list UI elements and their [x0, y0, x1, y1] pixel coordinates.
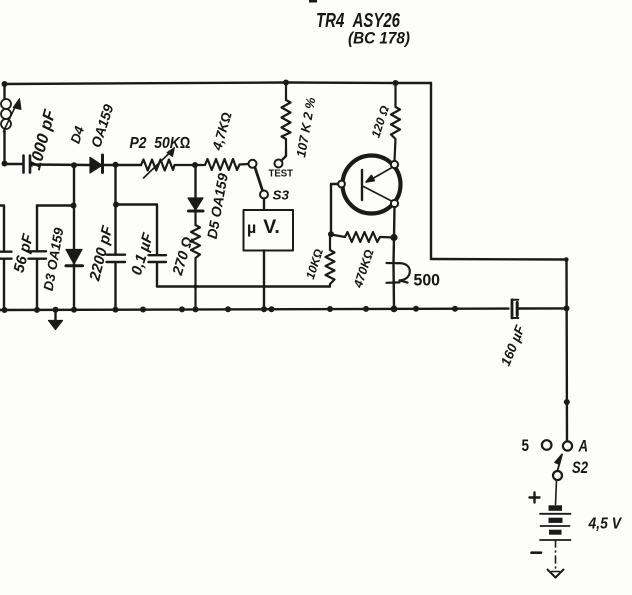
- switch S2 contact A: [563, 441, 572, 450]
- capacitor input (cut at left edge): [0, 206, 12, 311]
- svg-text:2200 pF: 2200 pF: [86, 223, 116, 283]
- svg-text:107 K 2 %: 107 K 2 %: [293, 96, 318, 159]
- node before D4 (D3 tap): [71, 162, 77, 168]
- resistor 107K 2%: [282, 83, 291, 151]
- test jack contact (4.7K end): [249, 160, 257, 168]
- resistor 10K: [326, 234, 335, 286]
- node P2 / 4.7K / D5 junction: [192, 162, 198, 168]
- wire S3 to meter: [263, 199, 265, 211]
- diode D4 OA159: [90, 155, 141, 173]
- svg-text:56 pF: 56 pF: [10, 231, 37, 274]
- svg-text:4,7KΩ: 4,7KΩ: [209, 110, 234, 152]
- node 270/wire crossing: [194, 285, 198, 289]
- diode D3 OA159: [66, 250, 83, 266]
- switch S3 arm: [255, 168, 263, 191]
- capacitor 0.1 uF: [149, 255, 167, 286]
- node corner battery feed: [564, 257, 569, 262]
- node 2200pF top tee: [113, 202, 119, 208]
- svg-text:120 Ω: 120 Ω: [369, 103, 393, 139]
- node input top: [2, 81, 8, 87]
- capacitor 2200 pF: [107, 255, 126, 309]
- battery minus sign: [532, 551, 542, 554]
- svg-text:µV.: µV.: [247, 216, 280, 238]
- node bus/battery branch: [564, 305, 570, 311]
- svg-text:0,1 µF: 0,1 µF: [128, 230, 157, 277]
- node after D4: [113, 162, 119, 168]
- svg-text:160 µF: 160 µF: [498, 323, 528, 369]
- wire meter to bus: [263, 251, 265, 310]
- switch S2 pole contact: [553, 471, 562, 480]
- wire bottom bus left of 160uF: [0, 309, 509, 310]
- wire bottom bus right of 160uF: [519, 307, 567, 310]
- svg-text:5: 5: [522, 436, 530, 455]
- svg-text:S3: S3: [273, 189, 290, 203]
- node collector/470K: [390, 234, 397, 241]
- capacitor 1000 pF (series): [5, 156, 91, 173]
- svg-text:10KΩ: 10KΩ: [303, 247, 326, 281]
- svg-text:OA159: OA159: [88, 102, 117, 149]
- stray mark top edge: [309, 0, 317, 3]
- svg-text:(BC 178): (BC 178): [348, 30, 410, 48]
- svg-text:S2: S2: [572, 458, 588, 477]
- switch S2 arm: [555, 454, 562, 476]
- wire switch to battery: [556, 480, 557, 505]
- svg-text:470KΩ: 470KΩ: [351, 247, 377, 290]
- capacitor 56 pF: [29, 206, 47, 310]
- wire horizontal to battery branch: [431, 258, 567, 261]
- resistor 470K: [331, 232, 394, 242]
- wire collector down: [393, 207, 396, 237]
- node base/470K/10K: [328, 231, 334, 237]
- switch S3 contact: [260, 191, 268, 199]
- node input bottom: [2, 161, 8, 167]
- svg-text:A: A: [578, 437, 588, 456]
- svg-text:270 Ω: 270 Ω: [170, 235, 197, 278]
- resistor 4.7K: [195, 159, 249, 170]
- diode D5 OA159: [188, 165, 203, 211]
- battery 4.5V: [540, 505, 571, 540]
- wire 0.1uF to 10K: [157, 285, 330, 287]
- svg-text:500: 500: [414, 271, 441, 290]
- resistor 270 ohm: [191, 212, 200, 310]
- svg-text:D4: D4: [68, 124, 88, 146]
- wire right vertical drop from top rail: [430, 83, 432, 259]
- wire battery branch vertical: [565, 260, 568, 442]
- wire 56pF top link: [37, 204, 74, 206]
- battery plus sign: [530, 493, 540, 503]
- variable inductor (input coil): [1, 84, 21, 164]
- node battery branch mid: [564, 399, 570, 405]
- potentiometer P2 50K: [141, 148, 195, 179]
- switch S2 spare contact O: [542, 440, 552, 450]
- resistor 120 ohm: [391, 83, 400, 161]
- meter uV box: [244, 210, 294, 251]
- svg-text:D5 OA159: D5 OA159: [204, 172, 231, 240]
- test jack TEST: [275, 160, 283, 168]
- ground battery: [548, 570, 564, 578]
- node D3 top tee: [71, 203, 77, 209]
- capacitor 160uF (series in bus): [512, 300, 518, 318]
- svg-text:P2 50KΩ: P2 50KΩ: [130, 135, 191, 152]
- bus junction dots: [2, 306, 459, 314]
- transistor TR4 ASY26 (BC178): [338, 156, 400, 214]
- wire TEST to 107K: [281, 150, 286, 161]
- wire 2200pF branch: [114, 165, 116, 254]
- svg-text:1000 pF: 1000 pF: [26, 107, 60, 172]
- wire base to 10K node: [331, 184, 338, 234]
- wire top supply rail: [5, 83, 432, 85]
- inductor 500: [387, 238, 410, 310]
- wire battery to ground (dash-dot): [555, 540, 557, 569]
- node 120 top: [393, 80, 399, 86]
- svg-text:TEST: TEST: [269, 168, 294, 180]
- node 107K top: [283, 80, 289, 86]
- ground bus: [49, 310, 63, 330]
- wire 0.1uF top link: [116, 205, 157, 255]
- svg-text:4,5 V: 4,5 V: [588, 516, 623, 533]
- wire D3 branch vertical: [73, 165, 75, 309]
